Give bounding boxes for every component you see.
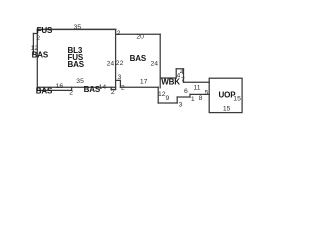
svg-text:16: 16: [56, 83, 64, 90]
svg-text:24: 24: [107, 61, 115, 68]
svg-text:7: 7: [181, 76, 185, 83]
wall 17-line bottom of middle section: [120, 86, 158, 88]
svg-text:20: 20: [136, 33, 144, 40]
wall step vertical at x120: [119, 80, 121, 87]
svg-text:BAS: BAS: [36, 86, 53, 95]
svg-text:15: 15: [233, 96, 241, 103]
svg-text:5: 5: [205, 89, 209, 96]
wall notch horizontal: [111, 89, 115, 91]
svg-text:15: 15: [223, 106, 231, 113]
svg-text:2: 2: [36, 35, 40, 42]
wall WBK left vertical: [157, 87, 159, 103]
svg-text:6: 6: [184, 88, 188, 95]
wall 3-step vertical: [176, 97, 178, 103]
svg-text:24: 24: [151, 61, 159, 68]
wall bump left vertical: [175, 69, 177, 78]
wall jog top-left horizontal: [33, 33, 37, 35]
wall 8-line: [190, 93, 209, 95]
svg-text:BAS: BAS: [130, 54, 147, 63]
wall left main vertical: [36, 29, 38, 90]
svg-text:4: 4: [180, 69, 184, 76]
svg-text:17: 17: [140, 79, 148, 86]
svg-text:BAS: BAS: [32, 50, 49, 59]
wall bottom main line: [37, 86, 115, 88]
wall middle section top: [116, 33, 161, 35]
wall shared vertical between left and middle sections: [115, 29, 117, 89]
wall top main (FUS section top): [37, 28, 115, 30]
svg-text:3: 3: [118, 74, 122, 81]
svg-text:2: 2: [69, 90, 73, 97]
wall bump right vertical: [183, 69, 185, 82]
svg-text:4: 4: [177, 73, 181, 80]
svg-text:11: 11: [194, 85, 201, 92]
svg-text:3: 3: [179, 101, 183, 108]
svg-text:1: 1: [191, 96, 195, 103]
wall bump top: [176, 68, 183, 70]
svg-text:2: 2: [111, 89, 115, 96]
wall 6-line: [177, 96, 190, 98]
wall WBK top: [160, 77, 176, 79]
svg-text:2: 2: [121, 84, 125, 91]
svg-text:9: 9: [166, 95, 170, 102]
wall middle section right vertical: [159, 34, 161, 88]
svg-text:8: 8: [199, 95, 203, 102]
wall WBK bottom: [158, 102, 177, 104]
svg-text:35: 35: [76, 78, 84, 85]
UOP porch rectangle: [209, 78, 242, 112]
svg-text:22: 22: [116, 60, 124, 67]
wall left outer vertical (BAS offset): [32, 34, 34, 54]
wall bottom lower offset line: [37, 89, 71, 91]
svg-text:BAS: BAS: [68, 60, 85, 69]
wall notch vertical: [110, 87, 112, 89]
svg-text:2: 2: [117, 30, 121, 37]
wall 1-step vertical: [189, 94, 191, 97]
svg-text:14: 14: [99, 84, 107, 91]
svg-text:35: 35: [74, 24, 82, 31]
wall 11-line: [184, 81, 210, 83]
wall step horizontal at 80.4: [116, 79, 121, 81]
svg-text:FUS: FUS: [37, 26, 53, 35]
wall step vertical at x72: [71, 87, 73, 90]
